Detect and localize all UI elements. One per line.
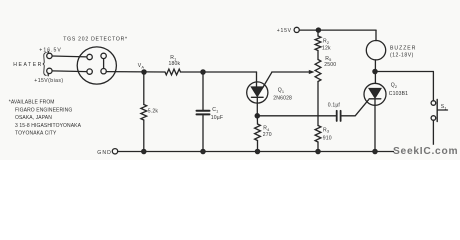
node Q1 cathode junction: [255, 114, 259, 118]
wire Q1 cathode down: [256, 97, 258, 116]
svg-text:2500: 2500: [324, 62, 336, 68]
detector pin bottom-left: [87, 69, 92, 74]
svg-text:C1: C1: [212, 107, 218, 113]
wire Q1 gate to pot: [272, 71, 310, 73]
wire R5 to R3: [317, 82, 319, 126]
potentiometer R5 2500: [315, 60, 321, 82]
transistor Q2 triangle: [369, 89, 381, 98]
switch S1 contact top: [431, 101, 436, 106]
wire heater bottom: [52, 70, 87, 73]
resistor R2 12k: [315, 36, 321, 51]
wire C2 to Q2 gate: [342, 100, 369, 116]
svg-text:2N6028: 2N6028: [273, 95, 292, 101]
svg-text:R3: R3: [323, 127, 329, 133]
wire S1 top lead: [432, 72, 434, 101]
svg-text:12k: 12k: [322, 45, 331, 51]
svg-text:3 15-8 HIGASHITOYONAKA: 3 15-8 HIGASHITOYONAKA: [15, 123, 82, 129]
switch S1 stem: [437, 109, 447, 111]
wire C1 bottom lead: [202, 115, 204, 151]
detector pin top-right: [101, 53, 106, 58]
svg-text:*AVAILABLE FROM: *AVAILABLE FROM: [9, 100, 55, 106]
node ground Q2: [373, 149, 377, 153]
transistor Q1 cathode bar: [252, 96, 264, 98]
node VA: [142, 70, 146, 74]
wire Q2 cathode to ground rail: [374, 99, 376, 152]
wire top rail: [299, 29, 376, 31]
transistor Q2 cathode bar: [369, 98, 381, 100]
node Q2 anode: [373, 69, 377, 73]
wire detector internal: [103, 59, 105, 69]
wire VA down: [143, 72, 145, 105]
resistor 5.2k: [141, 105, 147, 121]
svg-text:(12-18V): (12-18V): [390, 53, 414, 59]
svg-text:Q1: Q1: [278, 88, 284, 94]
detector pin bottom-right: [101, 69, 106, 74]
svg-text:+16.5V: +16.5V: [39, 47, 62, 53]
svg-text:SeekIC.com: SeekIC.com: [393, 146, 458, 157]
switch S1 contact bottom: [431, 116, 436, 121]
capacitor C2 0.1uF: [336, 111, 338, 121]
svg-text:180k: 180k: [169, 61, 181, 67]
svg-text:S1: S1: [441, 104, 447, 110]
terminal +15V(bias): [47, 68, 52, 73]
svg-text:10µF: 10µF: [211, 115, 223, 121]
wire R4 top lead: [256, 116, 258, 124]
wire C1 top lead: [202, 72, 204, 110]
svg-text:TGS 202 DETECTOR*: TGS 202 DETECTOR*: [63, 37, 127, 43]
svg-text:FIGARO ENGINEERING: FIGARO ENGINEERING: [15, 107, 72, 113]
transistor Q1 2N6028 body: [247, 82, 268, 103]
svg-text:+15V(bias): +15V(bias): [34, 78, 63, 84]
brace heater: [43, 53, 46, 76]
wire heater top: [52, 55, 87, 58]
wire R3 to ground rail: [317, 142, 319, 152]
watermark backing: [394, 145, 458, 157]
wire Q1 anode: [256, 72, 258, 87]
wiper arrow R5: [309, 70, 315, 74]
resistor R1 180k: [165, 69, 181, 75]
svg-text:5.2k: 5.2k: [148, 109, 159, 115]
terminal GND: [112, 149, 117, 154]
switch S1 bar: [436, 100, 438, 122]
wire Q1 cathode to C2: [257, 115, 335, 117]
node ground R4: [255, 149, 259, 153]
node ground R3: [316, 149, 320, 153]
terminal +16.5V: [47, 53, 52, 58]
svg-text:C103B1: C103B1: [389, 91, 408, 97]
wire S1 bottom lead: [432, 120, 434, 151]
detector U1 TGS202 body: [77, 47, 116, 84]
svg-text:HEATER: HEATER: [13, 62, 43, 68]
wire 5.2k to ground rail: [143, 120, 145, 152]
wire buzzer to Q2 anode: [374, 60, 376, 84]
wire R2 to R5: [317, 51, 319, 60]
transistor Q1 triangle: [252, 87, 264, 96]
capacitor C1 10uF: [197, 110, 210, 112]
node C1 top: [201, 70, 205, 74]
svg-text:910: 910: [323, 135, 332, 141]
svg-text:R2: R2: [323, 39, 329, 45]
svg-text:VA: VA: [138, 63, 145, 69]
transistor Q2 C103B1 body: [364, 83, 386, 105]
node ground C1: [201, 149, 205, 153]
detector pin top-left: [87, 54, 92, 59]
wire ground rail: [118, 151, 434, 153]
wire R4 to ground rail: [257, 141, 259, 152]
wire R1 to C1 node: [181, 71, 257, 73]
wire R2 top lead: [317, 30, 319, 36]
svg-text:OSAKA, JAPAN: OSAKA, JAPAN: [15, 115, 52, 121]
resistor R3 910: [315, 126, 321, 143]
svg-text:+15V: +15V: [277, 28, 292, 34]
node R2 top: [316, 28, 320, 32]
wire detector output to R1: [106, 71, 165, 73]
svg-text:Q2: Q2: [391, 83, 397, 89]
svg-text:GND: GND: [97, 150, 112, 156]
wire rail corner to buzzer: [375, 30, 377, 40]
wire Q2 anode to S1: [375, 71, 433, 73]
terminal +15V: [294, 27, 299, 32]
svg-text:TOYONAKA CITY: TOYONAKA CITY: [15, 131, 57, 137]
svg-text:BUZZER: BUZZER: [390, 45, 416, 51]
wire Q1 gate diagonal: [263, 72, 272, 87]
svg-text:R4: R4: [263, 126, 270, 132]
node ground 5.2k: [142, 149, 146, 153]
svg-text:270: 270: [263, 132, 272, 138]
resistor R4 270: [255, 124, 261, 141]
svg-text:0.1µf: 0.1µf: [328, 103, 341, 109]
buzzer BZ1: [366, 41, 385, 60]
